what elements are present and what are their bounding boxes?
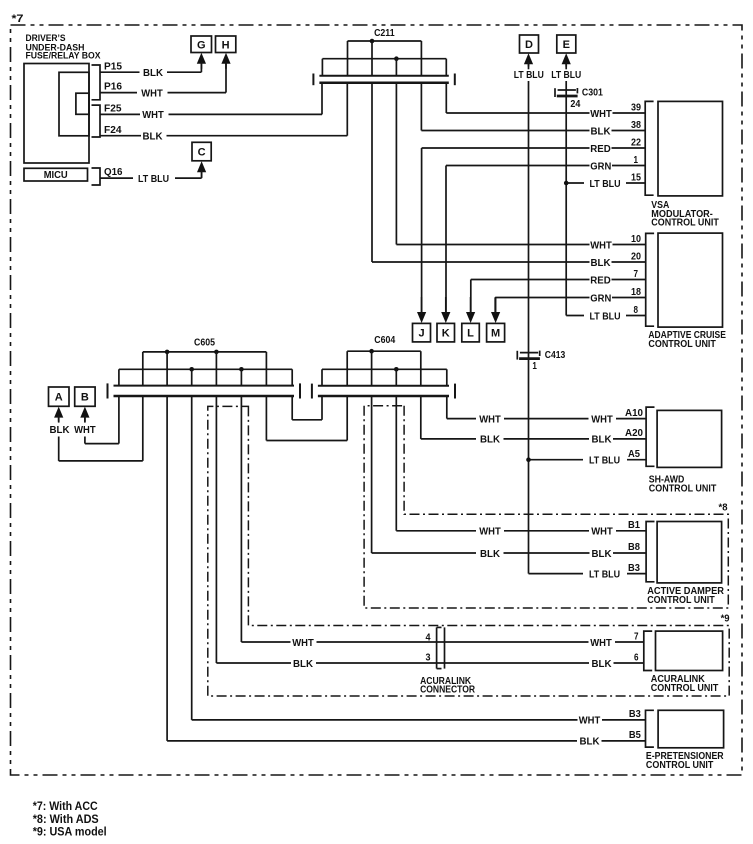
- svg-text:CONTROL UNIT: CONTROL UNIT: [651, 218, 719, 229]
- svg-text:1: 1: [532, 360, 537, 372]
- svg-text:FUSE/RELAY BOX: FUSE/RELAY BOX: [26, 51, 102, 62]
- svg-text:*8: With ADS: *8: With ADS: [33, 814, 99, 826]
- svg-text:LT BLU: LT BLU: [589, 455, 620, 467]
- svg-text:WHT: WHT: [590, 108, 612, 120]
- svg-text:BLK: BLK: [592, 658, 612, 670]
- svg-text:C605: C605: [194, 337, 215, 349]
- svg-text:*9: USA model: *9: USA model: [33, 827, 107, 839]
- svg-text:LT BLU: LT BLU: [590, 178, 621, 190]
- svg-text:B5: B5: [629, 729, 641, 741]
- svg-text:C301: C301: [582, 86, 603, 98]
- svg-text:B: B: [81, 392, 89, 404]
- svg-text:3: 3: [426, 653, 431, 664]
- svg-text:BLK: BLK: [591, 257, 611, 269]
- svg-text:CONTROL UNIT: CONTROL UNIT: [651, 683, 719, 694]
- svg-text:BLK: BLK: [592, 434, 612, 446]
- svg-text:WHT: WHT: [591, 526, 613, 538]
- svg-text:CONTROL UNIT: CONTROL UNIT: [649, 483, 717, 494]
- svg-text:Q16: Q16: [104, 167, 123, 178]
- svg-text:GRN: GRN: [590, 292, 611, 304]
- svg-text:A: A: [55, 392, 63, 404]
- svg-text:1: 1: [634, 154, 639, 166]
- svg-text:L: L: [467, 328, 474, 340]
- svg-text:18: 18: [631, 286, 641, 298]
- svg-text:B8: B8: [628, 541, 640, 553]
- svg-text:*9: *9: [721, 613, 730, 625]
- svg-text:WHT: WHT: [142, 109, 164, 121]
- svg-text:CONTROL UNIT: CONTROL UNIT: [648, 339, 716, 350]
- svg-text:WHT: WHT: [74, 424, 96, 436]
- svg-text:15: 15: [631, 171, 641, 183]
- svg-text:F25: F25: [104, 104, 122, 115]
- svg-text:WHT: WHT: [479, 413, 501, 425]
- svg-text:7: 7: [634, 268, 639, 280]
- svg-text:20: 20: [631, 250, 641, 262]
- svg-text:P15: P15: [104, 61, 122, 72]
- svg-text:*8: *8: [719, 501, 728, 513]
- svg-text:24: 24: [570, 98, 580, 110]
- svg-text:BLK: BLK: [591, 125, 611, 137]
- svg-text:22: 22: [631, 136, 641, 148]
- svg-text:E: E: [563, 39, 570, 51]
- svg-text:BLK: BLK: [293, 658, 313, 670]
- svg-text:D: D: [525, 39, 533, 51]
- svg-text:B3: B3: [629, 708, 641, 720]
- svg-text:J: J: [418, 328, 424, 340]
- svg-text:BLK: BLK: [143, 131, 163, 143]
- svg-text:*7: *7: [12, 13, 24, 25]
- svg-text:39: 39: [631, 101, 641, 113]
- svg-text:BLK: BLK: [592, 548, 612, 560]
- svg-text:BLK: BLK: [580, 736, 600, 748]
- svg-text:4: 4: [426, 633, 431, 644]
- svg-text:WHT: WHT: [479, 526, 501, 538]
- svg-text:C413: C413: [545, 349, 566, 361]
- svg-text:M: M: [491, 328, 500, 340]
- svg-text:A10: A10: [625, 407, 643, 419]
- svg-text:WHT: WHT: [292, 637, 314, 649]
- svg-text:LT BLU: LT BLU: [514, 69, 544, 81]
- svg-text:WHT: WHT: [590, 239, 612, 251]
- svg-text:C: C: [198, 147, 206, 159]
- svg-text:GRN: GRN: [590, 160, 611, 172]
- svg-text:B3: B3: [628, 562, 640, 574]
- svg-text:P16: P16: [104, 82, 122, 93]
- svg-text:WHT: WHT: [590, 637, 612, 649]
- svg-text:A5: A5: [628, 448, 640, 460]
- svg-text:WHT: WHT: [591, 413, 613, 425]
- svg-text:CONNECTOR: CONNECTOR: [420, 685, 476, 696]
- svg-text:BLK: BLK: [50, 424, 70, 436]
- svg-text:7: 7: [634, 630, 639, 642]
- svg-text:G: G: [197, 39, 206, 51]
- svg-text:C604: C604: [374, 334, 395, 346]
- svg-text:H: H: [222, 39, 230, 51]
- svg-text:F24: F24: [104, 125, 122, 136]
- svg-text:*7: With ACC: *7: With ACC: [33, 801, 98, 813]
- svg-text:LT BLU: LT BLU: [551, 69, 581, 81]
- svg-text:WHT: WHT: [579, 715, 601, 727]
- svg-text:MICU: MICU: [44, 169, 68, 181]
- svg-text:6: 6: [634, 651, 639, 663]
- svg-text:C211: C211: [374, 27, 395, 39]
- svg-text:LT BLU: LT BLU: [138, 173, 169, 185]
- svg-text:RED: RED: [590, 274, 611, 286]
- svg-text:10: 10: [631, 233, 641, 245]
- svg-text:A20: A20: [625, 427, 643, 439]
- svg-text:8: 8: [634, 304, 639, 316]
- svg-text:CONTROL UNIT: CONTROL UNIT: [647, 595, 715, 606]
- svg-text:BLK: BLK: [480, 434, 500, 446]
- svg-text:CONTROL UNIT: CONTROL UNIT: [646, 760, 714, 771]
- svg-text:WHT: WHT: [141, 87, 163, 99]
- svg-text:LT BLU: LT BLU: [590, 310, 621, 322]
- svg-text:BLK: BLK: [480, 548, 500, 560]
- svg-text:RED: RED: [590, 143, 611, 155]
- svg-text:BLK: BLK: [143, 67, 163, 79]
- svg-text:LT BLU: LT BLU: [589, 568, 620, 580]
- svg-text:B1: B1: [628, 519, 640, 531]
- svg-text:38: 38: [631, 119, 641, 131]
- svg-text:K: K: [442, 328, 450, 340]
